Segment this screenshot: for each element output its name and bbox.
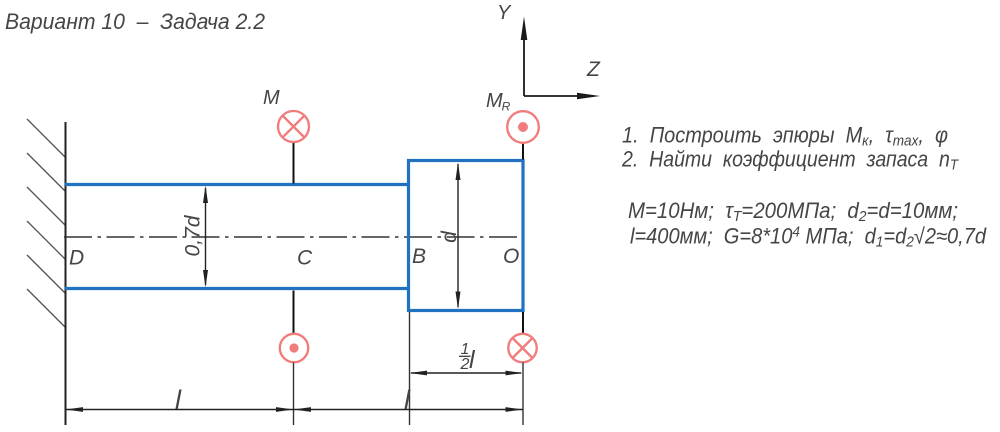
svg-text:B: B: [412, 245, 426, 268]
moment MR symbol (circle with dot, out of page): [507, 111, 539, 143]
dimension l (bottom) line: [66, 407, 524, 412]
svg-text:MR: MR: [486, 90, 511, 114]
svg-text:Вариант 10 – Задача 2.2: Вариант 10 – Задача 2.2: [5, 9, 265, 34]
moment at O stem line lower: [522, 312, 524, 334]
wall hatching: [27, 119, 65, 327]
dimension 1/2 l label (fraction): [459, 341, 476, 374]
svg-text:Y: Y: [497, 2, 512, 24]
svg-text:C: C: [297, 247, 313, 270]
svg-text:M=10Нм; τТ=200МПа; d2=d=10мм: M=10Нм; τТ=200МПа; d2=d=10мм;: [628, 198, 958, 225]
shaft section 2 rectangle (d diameter): [409, 161, 524, 311]
centerline (dash-dot axis of shaft): [64, 236, 523, 238]
extension line below B: [409, 312, 411, 425]
wall line: [65, 122, 67, 425]
moment MR stem line: [522, 144, 524, 160]
moment at O symbol (circle with cross): [508, 334, 536, 362]
shaft section 1 bottom line: [65, 287, 410, 290]
svg-text:D: D: [69, 247, 84, 270]
svg-text:2. Найти коэффициент запаса: 2. Найти коэффициент запаса nТ: [621, 147, 960, 174]
moment at C stem line lower: [293, 291, 295, 335]
svg-text:Z: Z: [586, 58, 601, 81]
dimension 0,7d line: [203, 186, 208, 288]
svg-text:M: M: [263, 87, 280, 109]
moment M stem line: [293, 143, 295, 184]
svg-text:l: l: [175, 385, 182, 415]
svg-text:1. Построить эпюры Мк, τma: 1. Построить эпюры Мк, τmax, φ: [622, 123, 948, 150]
dimension 1/2 l line: [410, 371, 524, 376]
shaft section 1 top line (0,7d diameter): [65, 183, 410, 186]
svg-text:l: l: [469, 346, 476, 374]
svg-text:l=400мм; G=8*104 МПа; d1=d2√: l=400мм; G=8*104 МПа; d1=d2√2≈0,7d: [630, 224, 987, 251]
dimension d line: [456, 163, 461, 310]
extension line below O: [522, 363, 524, 426]
svg-text:d: d: [438, 230, 461, 243]
extension line below C: [293, 363, 295, 426]
svg-text:O: O: [503, 245, 519, 268]
axis Y: [521, 17, 528, 97]
moment M symbol (circle with cross, into page): [278, 111, 309, 142]
svg-text:0,7d: 0,7d: [182, 214, 205, 256]
moment at C symbol (circle with dot): [280, 334, 308, 362]
svg-text:l: l: [404, 385, 411, 415]
axis Z: [524, 93, 600, 100]
